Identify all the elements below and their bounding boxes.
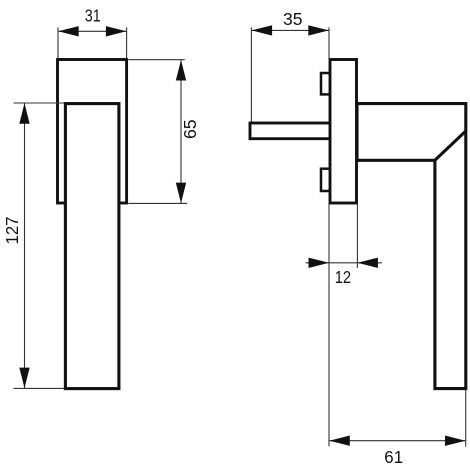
dim 127 arrow up — [19, 103, 29, 124]
svg-text:12: 12 — [335, 267, 351, 287]
dim 61 arrow left — [329, 436, 350, 446]
handle bend edge — [435, 131, 466, 160]
dim 65 line — [180, 60, 182, 204]
dim 127 line — [24, 103, 26, 388]
dim 31 ext line left — [57, 27, 59, 58]
svg-text:127: 127 — [2, 217, 22, 245]
plate front view — [58, 60, 127, 204]
handle side view silhouette — [357, 104, 466, 389]
dim 31 arrow right — [106, 26, 127, 36]
screw boss bottom — [321, 169, 332, 191]
dim 31 line — [58, 30, 127, 32]
dim 127 arrow down — [19, 368, 29, 389]
dim 61 arrow right — [445, 436, 466, 446]
handle bar front view — [65, 104, 119, 389]
dim 35 arrow left — [252, 25, 273, 35]
dim 12 line — [306, 262, 383, 264]
dim 35 line — [251, 29, 329, 31]
dim 61 line — [329, 440, 466, 442]
dim 35 ext line left — [250, 28, 252, 122]
dim 65 arrow up — [176, 60, 186, 81]
screw boss top — [321, 73, 332, 94]
svg-text:31: 31 — [85, 6, 101, 26]
dim 31 arrow left — [58, 26, 78, 36]
dim 12 arrow outside-left pointing right — [309, 258, 330, 268]
dim 61 ext line right — [465, 390, 467, 447]
dim 65 arrow down — [176, 183, 186, 204]
dim 12 ext line right — [356, 204, 358, 268]
dim 65 ext line top — [128, 59, 185, 61]
dim 31 ext line right — [126, 27, 128, 58]
dim 12 arrow outside-right pointing left — [357, 258, 378, 268]
plate side view — [330, 60, 357, 204]
dim 65 ext line bottom — [128, 202, 187, 204]
svg-text:35: 35 — [283, 9, 303, 29]
svg-text:65: 65 — [180, 119, 200, 139]
dim 35 arrow right — [308, 25, 329, 35]
svg-text:61: 61 — [384, 447, 403, 467]
dim 127 ext line top — [14, 102, 65, 104]
long ext line at plate left face — [328, 28, 330, 59]
spindle — [250, 123, 331, 139]
dim 127 ext line bottom — [13, 387, 64, 389]
